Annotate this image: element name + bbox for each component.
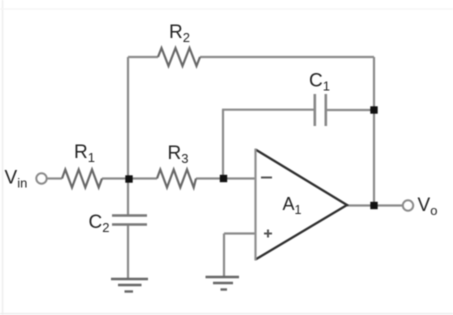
- svg-text:C1: C1: [309, 71, 330, 94]
- svg-text:Vo: Vo: [418, 195, 438, 218]
- svg-text:R3: R3: [168, 143, 189, 166]
- svg-text:Vin: Vin: [5, 168, 28, 191]
- svg-text:R1: R1: [74, 142, 95, 165]
- svg-text:R2: R2: [169, 22, 190, 45]
- svg-text:A1: A1: [283, 194, 302, 217]
- svg-text:C2: C2: [89, 212, 110, 235]
